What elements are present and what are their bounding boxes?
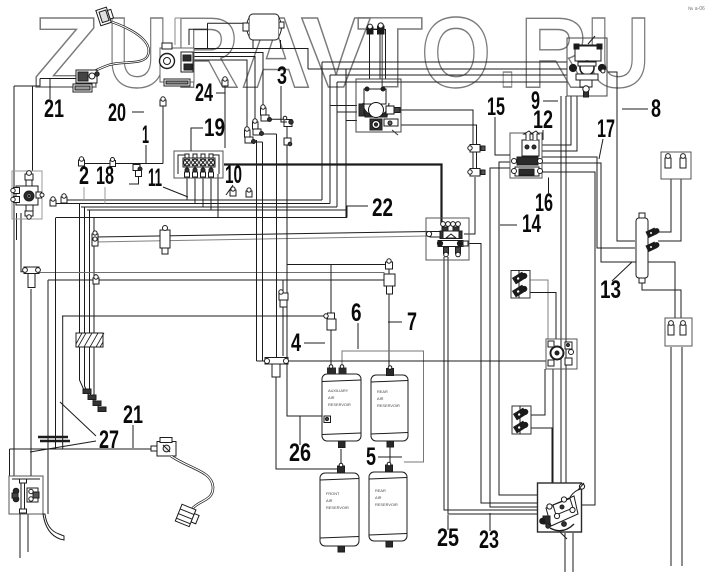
wire y361 long bbox=[257, 360, 547, 362]
dryer top bolts bbox=[367, 23, 384, 34]
wire x48 down bbox=[47, 280, 49, 514]
air dryer assembly box bbox=[356, 79, 401, 135]
wire 17 pipe B bbox=[542, 163, 675, 318]
wire vertical x337 bbox=[336, 82, 338, 207]
bolt pair left end a bbox=[92, 231, 98, 240]
bolt y201 left bbox=[50, 197, 56, 206]
wire mid vertical x276 bbox=[276, 134, 278, 357]
fitting box right upper bbox=[661, 152, 691, 179]
wire bottom valve drop 1 bbox=[19, 514, 21, 558]
wire elbows415 lower to hand valve bbox=[531, 428, 552, 483]
wire tank2 drain to tank4 bbox=[389, 447, 391, 465]
svg-text:21: 21 bbox=[44, 95, 64, 123]
elbow pair box lower bbox=[512, 406, 531, 434]
wire elbows415 to load valve bottom bbox=[531, 369, 545, 415]
wire valve4 to tank1 bolt bbox=[330, 330, 332, 368]
svg-text:№ a-06: № a-06 bbox=[688, 6, 705, 12]
union fitting x475 upper bbox=[468, 145, 485, 153]
svg-text:AUXILIARY: AUXILIARY bbox=[328, 388, 349, 393]
dual brake valve top right bbox=[567, 36, 607, 97]
wire bundle y210 bbox=[87, 209, 346, 211]
exhaust pipe elbow bbox=[43, 514, 64, 540]
svg-text:RESERVOIR: RESERVOIR bbox=[377, 403, 400, 408]
wire hand valve bottom 2 bbox=[572, 533, 574, 572]
bolt stem right b bbox=[246, 188, 252, 197]
wire bundle y200 bbox=[64, 199, 322, 201]
elbow stack E2 bbox=[253, 119, 264, 136]
wire pair y237 bbox=[95, 232, 430, 238]
wire x9 corner into valve bbox=[9, 449, 11, 476]
wire dryer left port 3 bbox=[346, 120, 357, 122]
wire upper fitting box drop 2 bbox=[658, 179, 681, 241]
svg-text:AIR: AIR bbox=[377, 396, 384, 401]
wire vertical x322 bbox=[321, 62, 323, 200]
svg-text:23: 23 bbox=[479, 526, 499, 554]
wire left x14 full bbox=[13, 86, 15, 476]
corner note bbox=[688, 6, 705, 12]
wire dryer left port 1 bbox=[330, 105, 357, 107]
brake chamber bar 13 bbox=[636, 213, 660, 283]
wire valve7 bottom to tank2 bolt bbox=[388, 294, 390, 368]
reservoir tank 3 front bbox=[320, 463, 359, 552]
connector plug top left bbox=[96, 6, 115, 26]
svg-text:17: 17 bbox=[597, 115, 615, 143]
bolt 20 line small bbox=[0, 0, 1, 1]
wire tank1 drain to tank3 bbox=[340, 449, 342, 466]
wire dryer top drop a bbox=[369, 34, 371, 79]
wire y280 left bolt stem bbox=[95, 274, 97, 280]
horizontal reservoir top bbox=[243, 14, 284, 40]
wire dryer out right to fitting bbox=[398, 110, 473, 170]
elbow E4 bbox=[283, 116, 293, 126]
wire load valve down to hand valve bbox=[552, 369, 554, 483]
wire F1 tee from y280 bbox=[282, 280, 284, 292]
wire pvalve stem 3 bbox=[202, 177, 204, 207]
wire valve12 right to x595 hand valve right bbox=[542, 172, 595, 505]
wire pvalve stem 4 bbox=[210, 177, 212, 210]
wire brake valve drop x561 bbox=[560, 96, 562, 483]
wire fitting down to relay right port bbox=[464, 177, 475, 234]
svg-text:6: 6 bbox=[351, 299, 362, 327]
wire lower box bottom 1 bbox=[670, 347, 672, 566]
svg-text:AIR: AIR bbox=[328, 395, 335, 400]
wire bundle y203 bbox=[75, 203, 330, 205]
wire bundle drop x94 bbox=[93, 218, 95, 334]
wire mid vertical x262 bbox=[262, 142, 264, 361]
wire trunk y69 to brake valve bbox=[308, 68, 567, 70]
svg-text:3: 3 bbox=[277, 62, 287, 90]
inline fitting E5 bbox=[284, 138, 292, 146]
four circuit protection valve bbox=[174, 151, 223, 178]
wire bolt20 drop bbox=[162, 106, 164, 164]
wire bundle drop x84 bbox=[84, 207, 86, 333]
inline valve y265 small bbox=[160, 226, 170, 255]
wire y163 bolts line bbox=[84, 163, 163, 165]
cable from plug to pump bbox=[90, 22, 149, 74]
reservoir tank 4 rear bbox=[369, 462, 407, 547]
wire brake valve right to bar13 bbox=[608, 72, 635, 241]
wire valve4 drop from y264 bbox=[330, 265, 332, 314]
wire bundle y207 bbox=[81, 206, 337, 208]
diagnostic socket bbox=[151, 438, 176, 457]
left distribution valve block bbox=[11, 171, 44, 220]
svg-text:AIR: AIR bbox=[326, 498, 333, 503]
wire hatch drop 4 bbox=[94, 347, 99, 408]
bolt 20 bbox=[160, 97, 166, 106]
wire bottom valve drop 2 bbox=[27, 514, 29, 552]
wire label18 leader bbox=[104, 187, 106, 204]
wire brake valve drop x566 bbox=[565, 96, 567, 483]
svg-text:15: 15 bbox=[487, 93, 505, 121]
svg-text:RESERVOIR: RESERVOIR bbox=[326, 505, 349, 510]
svg-text:O: O bbox=[421, 0, 491, 109]
fitting F1 bbox=[279, 290, 288, 307]
wire frame V3 valve12 left port bbox=[499, 162, 537, 495]
svg-text:REAR: REAR bbox=[377, 389, 388, 394]
broken pipe bars bbox=[38, 437, 70, 441]
svg-text:12: 12 bbox=[533, 106, 553, 134]
wire y280 long bbox=[48, 279, 384, 281]
wire dryer left port 2 bbox=[337, 111, 357, 113]
svg-text:RESERVOIR: RESERVOIR bbox=[375, 502, 398, 507]
wire bundle y217 22line bbox=[56, 217, 347, 219]
elbow stack E3 bbox=[261, 105, 272, 122]
wire upper fitting box drop 1 bbox=[658, 179, 671, 232]
relay valve 22 bbox=[426, 218, 469, 260]
wire brake valve bottom to valve12 port bbox=[542, 96, 571, 145]
wire y449 to socket bbox=[10, 448, 156, 450]
bolt 24 bbox=[222, 77, 228, 86]
pump unit 21 bbox=[73, 70, 99, 92]
svg-text:RESERVOIR: RESERVOIR bbox=[328, 402, 351, 407]
wire brake valve bottom to valve12 port2 bbox=[542, 96, 577, 151]
bolt y315 x96 bbox=[93, 275, 99, 284]
svg-text:13: 13 bbox=[600, 276, 621, 304]
svg-text:REAR: REAR bbox=[375, 488, 386, 493]
bolt pair left end b bbox=[92, 237, 98, 246]
wire trunk y62 to brake valve bbox=[322, 61, 567, 63]
wire hatch drop 2 bbox=[85, 347, 90, 396]
wire hatch drop 1 bbox=[80, 347, 85, 390]
wire elbows268 lower bbox=[530, 293, 556, 340]
union fitting x475 lower bbox=[468, 169, 485, 177]
wire mid vertical x256 bbox=[256, 140, 258, 361]
inline valve 7 bbox=[384, 259, 395, 294]
wire tank stem 2 bbox=[252, 40, 254, 49]
wire label2 leader bbox=[83, 187, 85, 200]
wire F1 down to tee bbox=[282, 307, 284, 356]
coiled cable to plug bbox=[171, 456, 213, 509]
wire bundle drop x89 bbox=[89, 210, 91, 333]
compressor bbox=[160, 18, 244, 86]
svg-text:7: 7 bbox=[407, 308, 417, 336]
elbow stack E1 bbox=[245, 127, 256, 144]
wire hand valve bottom 1 bbox=[564, 533, 566, 572]
connector tips bbox=[83, 389, 106, 412]
reservoir tank 1 auxiliary bbox=[322, 365, 361, 448]
svg-text:24: 24 bbox=[195, 79, 213, 107]
wire frame V2 valve12 left port2 bbox=[490, 168, 537, 507]
bolt stem right a bbox=[230, 187, 236, 196]
wire relay22 down right to hand valve bbox=[448, 257, 537, 514]
wire dryer top drop c bbox=[385, 30, 387, 80]
wire y264 to valve7 top bbox=[287, 264, 389, 266]
wire dryer out right 2 to fitting bbox=[401, 125, 477, 170]
wire dryer top drop b bbox=[379, 33, 381, 79]
svg-text:Z: Z bbox=[33, 0, 99, 109]
wire vertical x330 bbox=[329, 75, 331, 204]
wire x287 vertical to tank1 side bbox=[287, 122, 326, 416]
wire left x55 down bbox=[55, 218, 57, 450]
svg-text:27: 27 bbox=[99, 426, 119, 454]
svg-text:1: 1 bbox=[142, 121, 149, 149]
wire hatch drop 3 bbox=[90, 347, 95, 402]
svg-text:11: 11 bbox=[148, 164, 162, 192]
wire relay22 out right to frame V1 bbox=[464, 244, 537, 504]
wire trunk y82 to brake valve bbox=[337, 81, 567, 83]
hand brake valve bbox=[538, 483, 585, 539]
wire pvalve stem 2 bbox=[194, 177, 196, 204]
wire y316 from x62 to valve4 bbox=[62, 315, 326, 317]
svg-text:2: 2 bbox=[79, 162, 89, 190]
wire trunk y75 to brake valve bbox=[330, 74, 567, 76]
elbow fitting left of valve bbox=[129, 165, 142, 185]
pressure limit valve 12/16 bbox=[510, 131, 543, 178]
wire block bottom outs bbox=[16, 213, 18, 240]
svg-text:14: 14 bbox=[522, 210, 541, 238]
bolt 18 bbox=[110, 158, 116, 167]
wire tee stem to tank3 bbox=[276, 366, 338, 469]
wire compressor out 1 bbox=[194, 49, 308, 70]
watermark ZURAVTO.RU bbox=[33, 0, 650, 109]
elbow pair box upper bbox=[511, 271, 530, 299]
wire pvalve stem 1 bbox=[186, 177, 188, 200]
T fitting above tank1 bbox=[0, 0, 1, 1]
svg-text:19: 19 bbox=[204, 114, 225, 142]
hatched box bbox=[76, 333, 104, 347]
svg-text:FRONT: FRONT bbox=[326, 491, 340, 496]
svg-text:20: 20 bbox=[108, 99, 126, 127]
svg-text:18: 18 bbox=[96, 162, 114, 190]
wire relay22 down left to hand valve bbox=[444, 257, 537, 510]
svg-text:U: U bbox=[107, 0, 168, 109]
inline valve 4 bbox=[324, 313, 336, 330]
svg-text:10: 10 bbox=[225, 161, 242, 189]
wire bar13 bottom to lower box bbox=[642, 278, 681, 318]
wire pump to left block bbox=[14, 79, 40, 87]
svg-text:4: 4 bbox=[291, 329, 301, 357]
load sensing valve bbox=[546, 339, 577, 369]
wire y203 left bolt link bbox=[55, 203, 80, 205]
wire left x62 down from y316 bbox=[62, 316, 64, 449]
fitting box right lower bbox=[665, 318, 692, 346]
reservoir tank 2 rear bbox=[371, 366, 408, 447]
wire lower box bottom 2 bbox=[681, 347, 683, 566]
wire vertical x346 bbox=[345, 69, 347, 218]
tee fitting left x31 bbox=[23, 267, 41, 288]
trailer plug bbox=[175, 504, 200, 528]
wire pair y242 gray bbox=[95, 236, 427, 242]
svg-text:AIR: AIR bbox=[375, 495, 382, 500]
wire pvalve stem 5 bbox=[217, 174, 219, 218]
svg-text:21: 21 bbox=[123, 401, 143, 429]
bolt 2 bbox=[79, 157, 85, 166]
wire compressor out 4 bbox=[194, 60, 247, 137]
wire tee31 down to bottom valve bbox=[30, 289, 32, 476]
svg-text:8: 8 bbox=[651, 95, 661, 123]
wire compressor out 3 bbox=[194, 57, 255, 130]
wire pump line 21 bbox=[49, 79, 51, 100]
wire pair left stub bbox=[94, 237, 96, 242]
wire thick main y164 bbox=[224, 165, 442, 224]
wire bundle drop x79 bbox=[79, 204, 81, 334]
bottom left lever valve bbox=[9, 476, 43, 514]
wire elbows268 to load valve gray bbox=[530, 280, 548, 339]
tee fitting mid bbox=[265, 358, 289, 378]
svg-text:5: 5 bbox=[366, 443, 376, 471]
wire dryer top pin 1 bbox=[366, 29, 386, 31]
wire valve7 stem bbox=[388, 269, 390, 274]
wire compressor out 2 bbox=[194, 53, 263, 109]
wire gray tank1 to tank4 zig bbox=[342, 351, 424, 462]
wire 17 pipe A bbox=[542, 157, 635, 248]
bolt y198 left bbox=[61, 194, 67, 203]
wire bolt24 drop bbox=[224, 86, 226, 148]
wire tank stem join bbox=[280, 40, 282, 49]
svg-text:22: 22 bbox=[372, 194, 393, 222]
wire y272 gray long bbox=[40, 273, 385, 279]
